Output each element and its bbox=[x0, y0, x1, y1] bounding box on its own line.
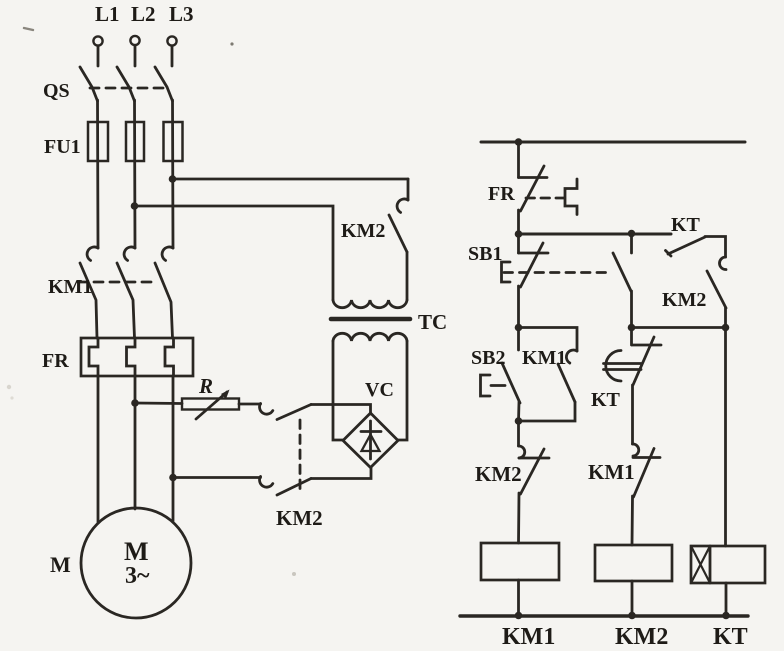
terminal L2 bbox=[130, 36, 139, 66]
wire phase2 FR to motor bbox=[134, 376, 137, 509]
contactor KM1 linkage dashed bbox=[78, 281, 157, 284]
fuse FU1 pole 2 bbox=[126, 122, 144, 161]
svg-text:L2: L2 bbox=[131, 2, 156, 26]
wire KT contact to KM1 aux NC bbox=[631, 385, 634, 444]
resistor R label bbox=[198, 374, 213, 398]
coil KT label bbox=[713, 624, 748, 650]
svg-text:KM1: KM1 bbox=[522, 347, 566, 369]
wire SB2 to node D bbox=[517, 402, 520, 421]
junction node C right bbox=[722, 324, 730, 332]
contactor KM1 pole 3 fixed contact bbox=[162, 247, 173, 260]
button SB1 NC top terminal bbox=[519, 234, 549, 253]
svg-text:L1: L1 bbox=[95, 2, 120, 26]
thermal relay FR element 2 bbox=[127, 338, 136, 376]
svg-text:KT: KT bbox=[713, 624, 748, 650]
wire FR contact to node A bbox=[517, 210, 520, 234]
node D junction bbox=[515, 417, 523, 425]
resistor R body bbox=[182, 399, 239, 410]
contactor KM2 transformer fixed contact bbox=[397, 199, 408, 212]
button SB1 actuator bbox=[502, 262, 511, 282]
wire SB1 NO to node C bbox=[630, 291, 633, 328]
thermal relay FR label bbox=[42, 350, 69, 372]
svg-text:KM1: KM1 bbox=[502, 624, 555, 650]
contactor KM1 aux NC label bbox=[588, 460, 635, 484]
contactor KM2 braking lower blade bbox=[277, 479, 311, 496]
wire KM2 aux to KM1 coil bbox=[517, 493, 520, 543]
button SB1 label bbox=[468, 243, 502, 265]
node C junction bbox=[628, 324, 636, 332]
motor M outer label bbox=[50, 552, 71, 577]
button SB1 NO top terminal bbox=[630, 234, 633, 253]
wire A corner down bbox=[407, 179, 410, 200]
svg-text:FR: FR bbox=[488, 183, 515, 205]
wire KM1 coil to bottom rail bbox=[517, 580, 520, 616]
coil KM1 bbox=[481, 543, 559, 580]
relay FR linkage dashed bbox=[526, 197, 564, 200]
relay KT delayed NC top terminal bbox=[632, 328, 662, 346]
button SB2 label bbox=[471, 347, 505, 369]
wire phase3 FR to motor bbox=[172, 376, 175, 521]
wire blade to rectifier plus bbox=[311, 405, 371, 415]
motor M circle bbox=[81, 508, 191, 618]
junction bottom rail KT bbox=[722, 612, 730, 620]
rectifier VC diode bbox=[361, 421, 381, 459]
junction phase3 braking tap bbox=[169, 474, 177, 482]
contactor KM2 aux NC label bbox=[475, 462, 522, 486]
transformer TC primary winding bbox=[333, 300, 407, 308]
node B junction bbox=[515, 324, 523, 332]
contactor KM2 aux NC seat bbox=[519, 457, 549, 460]
contactor KM2 braking label bbox=[276, 506, 323, 530]
wire phase1 QS to KM1 bbox=[96, 100, 99, 248]
contactor KM2 NC blade bbox=[707, 271, 726, 308]
relay KT delayed NC blade bbox=[633, 337, 654, 385]
button SB2 actuator bbox=[481, 375, 506, 396]
fuse FU1 pole 1 bbox=[88, 122, 108, 161]
junction on phase3 to control tap bbox=[169, 175, 177, 183]
svg-text:KM2: KM2 bbox=[276, 506, 323, 530]
contactor KM2 aux NC fixed contact arc bbox=[519, 446, 525, 458]
wire blade to transformer primary right bbox=[406, 252, 409, 300]
wire KT coil to bottom rail bbox=[725, 583, 728, 616]
contactor KM2 braking lower fixed contact bbox=[260, 477, 273, 488]
relay KT NO blade bbox=[666, 237, 706, 256]
contactor KM1 label bbox=[48, 276, 92, 298]
wire KT NO to corner bbox=[705, 237, 726, 258]
wire SB1 to node B bbox=[517, 286, 520, 328]
contactor KM1 aux NO label bbox=[522, 347, 566, 369]
contactor KM1 aux NO blade bbox=[558, 364, 575, 402]
contactor KM2 braking upper fixed contact bbox=[260, 404, 273, 415]
svg-text:KM2: KM2 bbox=[615, 624, 668, 650]
wire rail to FR contact bbox=[517, 142, 520, 178]
coil KT with time element bbox=[691, 546, 765, 583]
button SB1 NO blade bbox=[613, 253, 631, 291]
svg-text:SB2: SB2 bbox=[471, 347, 505, 369]
motor M inner label bbox=[124, 537, 150, 589]
svg-text:KT: KT bbox=[591, 389, 621, 411]
svg-text:KM1: KM1 bbox=[48, 276, 92, 298]
relay KT NO label bbox=[671, 214, 701, 236]
resistor R adjust arrow bbox=[196, 390, 230, 420]
transformer TC core bbox=[331, 317, 410, 322]
junction top rail branch B bbox=[628, 230, 636, 238]
svg-text:KM2: KM2 bbox=[341, 220, 385, 242]
wire A phase3 to KM2 braking contact top bbox=[173, 178, 409, 181]
contactor KM2 aux NC blade bbox=[521, 449, 545, 494]
contactor KM2 braking linkage dashed bbox=[299, 420, 302, 489]
contactor KM1 pole 1 blade bbox=[80, 263, 97, 338]
svg-text:FR: FR bbox=[42, 350, 69, 372]
coil KM2 bbox=[595, 545, 672, 581]
contactor KM2 transformer label bbox=[341, 220, 385, 242]
wire control bottom rail bbox=[460, 614, 748, 617]
node L2 terminal label bbox=[131, 2, 156, 26]
transformer TC secondary winding bbox=[333, 333, 407, 341]
coil KM2 label bbox=[615, 624, 668, 650]
svg-text:KM2: KM2 bbox=[662, 289, 706, 311]
wire node A rail bbox=[519, 233, 672, 236]
wire secondary right to bridge bbox=[398, 341, 408, 440]
node L3 terminal label bbox=[169, 2, 194, 26]
wire control top rail bbox=[481, 141, 745, 144]
contactor KM1 aux NO fixed contact bbox=[566, 350, 577, 363]
wire parallel loop bottom bbox=[519, 402, 576, 421]
wire phase3 to lower braking contact bbox=[173, 476, 261, 479]
contactor KM2 NC label bbox=[662, 289, 706, 311]
contactor KM1 pole 3 blade bbox=[155, 263, 173, 338]
svg-text:TC: TC bbox=[418, 310, 447, 334]
button SB2 NO top terminal bbox=[517, 328, 520, 351]
rectifier VC label bbox=[365, 379, 394, 401]
wire blade to rectifier minus bbox=[311, 467, 371, 479]
wire secondary left to bridge bbox=[333, 341, 344, 440]
switch QS linkage dashed bbox=[90, 87, 163, 90]
button SB1 NC blade bbox=[521, 243, 544, 287]
junction top rail branch A bbox=[515, 138, 523, 146]
svg-text:KT: KT bbox=[671, 214, 701, 236]
svg-text:QS: QS bbox=[43, 80, 70, 102]
contactor KM1 pole 2 blade bbox=[117, 263, 135, 338]
svg-text:3~: 3~ bbox=[125, 563, 150, 589]
svg-text:FU1: FU1 bbox=[44, 136, 81, 158]
button SB1 linkage dashed bbox=[504, 271, 612, 274]
contactor KM1 aux NC seat bbox=[633, 456, 660, 459]
scan speck mid bbox=[292, 572, 296, 576]
switch QS pole 3 blade bbox=[155, 67, 173, 101]
wire B phase2 to transformer primary bbox=[135, 206, 334, 300]
contactor KM1 aux NC fixed contact arc bbox=[633, 444, 639, 456]
relay FR contact label bbox=[488, 183, 515, 205]
thermal relay FR element 1 bbox=[89, 338, 98, 376]
wire node C to branch KT bbox=[632, 326, 726, 329]
relay FR NC contact seat bbox=[519, 176, 548, 179]
contactor KM2 NC fixed contact arc bbox=[719, 257, 726, 270]
contactor KM2 braking upper blade bbox=[277, 405, 311, 420]
svg-text:KM1: KM1 bbox=[588, 460, 635, 484]
wire phase1 FR to motor bbox=[97, 376, 100, 522]
scan speck near L3 bbox=[230, 42, 233, 45]
contactor KM1 pole 2 fixed contact bbox=[124, 247, 135, 260]
relay KT delay symbol bbox=[604, 351, 642, 382]
switch QS pole 1 blade bbox=[80, 67, 98, 101]
wire phase2 QS to KM1 bbox=[133, 100, 136, 248]
relay FR reset bracket bbox=[565, 179, 577, 215]
switch QS pole 2 blade bbox=[117, 67, 135, 101]
fuse FU1 label bbox=[44, 136, 81, 158]
junction on phase2 to transformer tap bbox=[131, 202, 139, 210]
scan speck top left bbox=[24, 28, 33, 30]
relay KT delayed NC label bbox=[591, 389, 621, 411]
thermal relay FR box bbox=[81, 338, 193, 376]
node L1 terminal label bbox=[95, 2, 120, 26]
transformer TC label bbox=[418, 310, 447, 334]
contactor KM2 transformer blade bbox=[389, 215, 407, 252]
relay FR NC contact blade bbox=[521, 166, 545, 211]
scan smudge left edge bbox=[7, 385, 14, 400]
coil KM1 label bbox=[502, 624, 555, 650]
svg-text:M: M bbox=[50, 552, 71, 577]
contactor KM2 aux NC top terminal bbox=[517, 421, 520, 446]
fuse FU1 pole 3 bbox=[164, 122, 183, 161]
svg-text:KM2: KM2 bbox=[475, 462, 522, 486]
wire KM1 aux to KM2 coil bbox=[631, 496, 634, 545]
svg-text:M: M bbox=[124, 537, 149, 566]
button SB2 NO blade bbox=[502, 363, 520, 403]
terminal L1 bbox=[93, 36, 102, 66]
svg-text:VC: VC bbox=[365, 379, 394, 401]
wire KM2 NC to KT coil bbox=[724, 308, 727, 546]
junction phase2 resistor tap bbox=[131, 399, 139, 407]
wire phase3 QS to KM1 bbox=[171, 100, 174, 248]
wire parallel loop top bbox=[519, 328, 578, 352]
wire resistor left lead bbox=[135, 402, 182, 405]
contactor KM1 pole 1 fixed contact bbox=[87, 247, 98, 260]
node A junction bbox=[515, 230, 523, 238]
rectifier VC bridge diamond bbox=[343, 413, 398, 468]
svg-text:SB1: SB1 bbox=[468, 243, 502, 265]
terminal L3 bbox=[167, 36, 176, 66]
switch QS label bbox=[43, 80, 70, 102]
thermal relay FR element 3 bbox=[165, 338, 174, 376]
svg-text:R: R bbox=[198, 374, 213, 398]
contactor KM1 aux NC blade bbox=[634, 449, 655, 498]
svg-text:L3: L3 bbox=[169, 2, 194, 26]
wire resistor right lead bbox=[239, 403, 261, 406]
wire KM2 coil to bottom rail bbox=[631, 581, 634, 616]
junction bottom rail KM1 bbox=[515, 612, 523, 620]
junction bottom rail KM2 bbox=[628, 612, 636, 620]
